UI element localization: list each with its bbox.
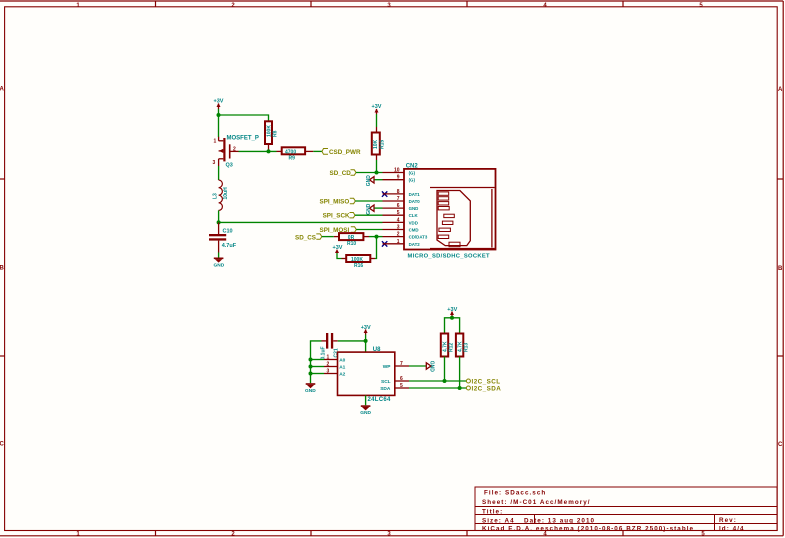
wire J6 to U8 VCC	[365, 341, 367, 352]
svg-text:B: B	[778, 266, 783, 272]
svg-text:Date: 13 aug 2010: Date: 13 aug 2010	[524, 518, 595, 525]
svg-text:Id: 4/4: Id: 4/4	[719, 526, 745, 533]
svg-text:2: 2	[233, 147, 236, 153]
power +3V above R17	[372, 104, 382, 114]
wire SCL to label	[409, 380, 466, 382]
svg-text:Title:: Title:	[482, 509, 503, 516]
wire GND to pin6	[375, 207, 383, 209]
ground GND at WP	[426, 361, 434, 373]
svg-text:DAT2: DAT2	[409, 242, 421, 247]
resistor R13	[456, 334, 470, 357]
svg-text:SPI_SCK: SPI_SCK	[323, 213, 350, 220]
svg-text:Rev:: Rev:	[719, 517, 737, 524]
power +3V at R16	[333, 245, 343, 253]
svg-text:SDA: SDA	[380, 386, 391, 392]
svg-text:GND: GND	[409, 206, 419, 211]
node junction J7	[450, 316, 454, 320]
svg-text:24LC64: 24LC64	[368, 397, 392, 403]
svg-text:3: 3	[327, 369, 330, 375]
ground GND below U8	[360, 405, 371, 416]
node junction SCL	[443, 379, 447, 383]
svg-text:SPI_MISO: SPI_MISO	[320, 199, 350, 206]
svg-text:A2: A2	[339, 372, 345, 378]
wire R13 down to SDA	[459, 357, 461, 389]
svg-text:1: 1	[327, 355, 330, 361]
svg-text:+3V: +3V	[333, 245, 343, 251]
svg-text:R13: R13	[464, 343, 470, 352]
no-connect pin1	[382, 241, 387, 246]
resistor R17 pull-up SD_CD	[372, 133, 386, 155]
svg-text:3: 3	[213, 160, 216, 166]
wire C21 right to +3V junction	[338, 340, 366, 342]
label I2C_SCL	[466, 378, 500, 385]
svg-text:(G): (G)	[409, 178, 416, 183]
svg-text:SD_CS: SD_CS	[295, 234, 316, 241]
svg-text:Q3: Q3	[226, 163, 233, 169]
wire SPI_MISO to pin7	[355, 200, 382, 202]
svg-text:CMD: CMD	[409, 228, 419, 233]
CN2 card contact pads	[438, 192, 460, 247]
connector CN2 socket body	[404, 164, 496, 260]
ground GND left of U8	[305, 379, 316, 394]
svg-text:A1: A1	[339, 365, 345, 371]
wire junction to R8 top	[219, 115, 269, 121]
svg-text:CLK: CLK	[409, 213, 419, 218]
svg-text:8: 8	[397, 189, 400, 195]
wire +3V to pull-ups	[445, 318, 460, 334]
svg-text:CN2: CN2	[406, 164, 419, 170]
node junction A0	[309, 358, 313, 362]
svg-text:C: C	[0, 442, 4, 448]
node junction J4	[375, 171, 379, 175]
svg-text:Size: A4: Size: A4	[482, 518, 515, 525]
resistor R16 100K	[342, 255, 376, 269]
resistor R10 0R	[334, 233, 369, 247]
svg-text:CSD_PWR: CSD_PWR	[329, 149, 361, 156]
node junction A2	[309, 372, 313, 376]
wire C21 left to A-pins bus	[311, 341, 322, 360]
wire SD_CD to pin10	[356, 172, 383, 174]
node junction J3	[217, 220, 221, 224]
svg-text:GND: GND	[305, 388, 316, 394]
CN2 pin stubs	[383, 173, 405, 244]
svg-text:9: 9	[397, 175, 400, 181]
node junction J5	[375, 235, 379, 239]
label I2C_SDA	[466, 385, 501, 392]
svg-text:R9: R9	[289, 156, 296, 162]
svg-text:File: SDacc.sch: File: SDacc.sch	[484, 490, 546, 497]
svg-text:C10: C10	[223, 229, 233, 235]
IC U8 24LC64	[324, 347, 409, 403]
no-connect pin8	[382, 191, 387, 196]
svg-text:R12: R12	[449, 343, 455, 352]
label CSD_PWR	[322, 149, 361, 156]
CN2 pin numbers	[394, 168, 400, 245]
node junction A1	[309, 365, 313, 369]
pin stub R17 top	[376, 127, 378, 133]
svg-text:4: 4	[397, 217, 400, 223]
pin stub R17 bottom	[376, 155, 378, 161]
wire junction down to Q3 source	[218, 115, 220, 137]
svg-text:SCL: SCL	[381, 379, 391, 385]
svg-text:GND: GND	[366, 203, 372, 215]
resistor R8	[265, 121, 279, 144]
wire R12 down to SCL	[444, 357, 446, 382]
wire VDD long to socket pin4	[219, 221, 383, 223]
svg-text:U8: U8	[373, 347, 381, 353]
svg-text:I2C_SDA: I2C_SDA	[472, 385, 502, 392]
wire R17 to SD_CD net	[376, 160, 378, 173]
svg-text:A: A	[778, 87, 783, 93]
svg-text:5: 5	[397, 210, 400, 216]
label SPI_SCK	[323, 213, 355, 220]
label SD_CD	[330, 170, 357, 177]
svg-text:3: 3	[397, 225, 400, 231]
svg-text:1: 1	[397, 239, 400, 245]
resistor R9 4700	[277, 147, 314, 161]
wire SPI_SCK to pin5	[355, 214, 383, 216]
svg-text:CD/DAT3: CD/DAT3	[409, 235, 428, 240]
ground GND at pin6	[366, 203, 374, 215]
svg-text:10: 10	[394, 168, 400, 174]
svg-text:DAT0: DAT0	[409, 199, 421, 204]
svg-text:GND: GND	[429, 361, 435, 373]
label SPI_MOSI	[320, 227, 357, 234]
node junction J2	[267, 149, 271, 153]
wire +3V stub down	[451, 317, 453, 318]
power +3V above pull-ups	[447, 307, 457, 317]
svg-text:R16: R16	[354, 263, 363, 269]
svg-text:10K: 10K	[373, 139, 379, 149]
svg-text:6: 6	[400, 376, 403, 382]
wire SDA to label	[409, 387, 466, 389]
wire +3V to J6	[365, 335, 367, 341]
wire GND to pin9	[375, 179, 383, 181]
label SPI_MISO	[320, 198, 356, 205]
wire +3V to junction	[218, 109, 220, 115]
svg-text:6: 6	[397, 203, 400, 209]
wire J5 down to R16	[375, 237, 377, 259]
svg-text:5: 5	[400, 383, 403, 389]
wire SPI_MOSI to pin3	[356, 229, 382, 231]
CN2 pin names	[409, 171, 428, 247]
wire R10 to pin2	[369, 236, 383, 238]
svg-text:MOSFET_P: MOSFET_P	[227, 136, 259, 142]
svg-text:R10: R10	[347, 241, 356, 247]
node junction SDA	[458, 386, 462, 390]
capacitor C21 0.1uF	[321, 333, 340, 360]
transistor Q3 MOSFET_P	[213, 136, 259, 169]
svg-text:(G): (G)	[409, 171, 416, 176]
inductor L3	[213, 166, 230, 210]
wire SD_CS to R10	[322, 236, 334, 238]
ground GND under C10	[214, 253, 225, 269]
ground GND at pin9	[366, 175, 374, 187]
wire A1	[311, 366, 325, 368]
wire A0	[311, 359, 325, 361]
wire U8 pin4 to GND	[365, 395, 367, 405]
svg-text:1: 1	[214, 138, 217, 144]
wire R8 bottom to gate net	[268, 144, 270, 151]
capacitor C10 4.7uF	[209, 222, 237, 252]
svg-text:Sheet: /M-C01 Acc/Memory/: Sheet: /M-C01 Acc/Memory/	[482, 499, 591, 506]
wire A-pins vertical bus	[310, 360, 312, 379]
svg-text:MICRO_SD/SDHC_SOCKET: MICRO_SD/SDHC_SOCKET	[408, 254, 491, 260]
svg-text:GND: GND	[360, 410, 371, 416]
svg-text:GND: GND	[214, 263, 225, 269]
svg-text:VDD: VDD	[409, 220, 418, 225]
wire +3V to R17 top	[376, 114, 378, 127]
svg-text:KiCad E.D.A. eeschema (2010-0: KiCad E.D.A. eeschema (2010-08-06 BZR 25…	[482, 526, 694, 533]
svg-text:A0: A0	[339, 358, 345, 364]
svg-text:R8: R8	[273, 130, 279, 137]
node junction J1	[217, 113, 221, 117]
CN2 card drawing	[430, 188, 495, 249]
wire gate to R9	[239, 150, 277, 152]
svg-text:C: C	[778, 442, 783, 448]
wire R16 to +3V	[337, 253, 342, 259]
svg-text:10uH: 10uH	[223, 187, 229, 200]
svg-text:4.7uF: 4.7uF	[222, 243, 237, 249]
svg-text:2: 2	[327, 362, 330, 368]
wire WP to GND	[409, 365, 426, 367]
node junction J6	[364, 339, 368, 343]
svg-text:WP: WP	[383, 364, 392, 370]
wire R9 to CSD_PWR	[313, 150, 322, 152]
power +3V PWR1	[214, 99, 224, 110]
svg-text:2: 2	[397, 232, 400, 238]
svg-text:GND: GND	[366, 175, 372, 187]
svg-text:DAT1: DAT1	[409, 192, 421, 197]
svg-text:R15: R15	[380, 140, 386, 149]
title block	[475, 487, 777, 531]
wire A2	[311, 373, 325, 375]
power +3V above U8	[361, 325, 371, 335]
resistor R12	[441, 334, 455, 357]
svg-text:L3: L3	[213, 193, 219, 199]
svg-text:B: B	[0, 266, 4, 272]
svg-text:7: 7	[400, 361, 403, 367]
wire L3 to junction J3	[218, 210, 220, 222]
svg-text:I2C_SCL: I2C_SCL	[472, 378, 501, 385]
svg-text:7: 7	[397, 196, 400, 202]
label SD_CS	[295, 234, 322, 241]
svg-text:SD_CD: SD_CD	[330, 170, 352, 177]
svg-text:A: A	[0, 87, 4, 93]
